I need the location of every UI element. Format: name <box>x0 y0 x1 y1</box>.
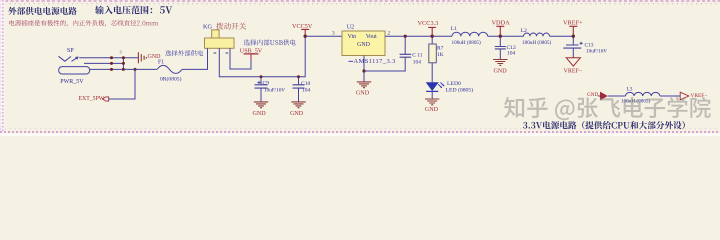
wire EXT_5PW to fuse rail <box>109 69 135 99</box>
capacitor C9 10uF/16V (polarized) <box>260 75 263 78</box>
svg-text:GND: GND <box>290 111 304 117</box>
capacitor C13 10uF/16V (polarized) <box>572 36 574 45</box>
wire L1 to VDDA junction <box>488 35 524 37</box>
wire GND port to L3 <box>608 95 626 97</box>
svg-text:GND: GND <box>356 91 370 97</box>
capacitor C12 104 <box>499 36 501 46</box>
svg-text:100uH (0805): 100uH (0805) <box>452 39 482 46</box>
svg-text:U2: U2 <box>347 24 354 30</box>
wire fuse to switch <box>182 48 208 69</box>
svg-text:LED (0805): LED (0805) <box>446 87 474 94</box>
sheet background <box>0 0 720 136</box>
svg-text:VDDA: VDDA <box>492 20 511 27</box>
wire C11 ground return <box>364 57 405 71</box>
ground (U2) <box>357 82 371 88</box>
svg-text:LED0: LED0 <box>447 81 461 87</box>
wire switch pin3 to USB_5V <box>230 52 251 69</box>
svg-text:GND: GND <box>587 92 598 98</box>
svg-text:10uF/16V: 10uF/16V <box>264 88 285 94</box>
ground (C9) <box>254 102 268 108</box>
capacitor C10 104 <box>297 75 300 78</box>
wire U2 GND pin down <box>363 56 365 82</box>
wire jack tip pin to ground <box>79 57 138 59</box>
svg-text:104: 104 <box>302 87 311 93</box>
title text 外部供电电源电路 <box>8 7 76 15</box>
svg-text:104: 104 <box>507 51 516 57</box>
wire U2 Vout along rail <box>385 35 452 37</box>
ground (C10) <box>291 102 305 108</box>
svg-text:1K: 1K <box>437 52 444 58</box>
port VREF- (right open arrow) <box>680 92 689 100</box>
title text 5V <box>160 6 172 13</box>
svg-text:C 11: C 11 <box>412 52 422 58</box>
wire VCC5V junction to U2 Vin <box>305 35 342 37</box>
LED LED0 <box>426 82 439 91</box>
sheet border top <box>0 0 720 2</box>
svg-text:104: 104 <box>413 60 421 66</box>
svg-text:10uF/16V: 10uF/16V <box>586 49 607 55</box>
svg-text:3: 3 <box>120 50 122 55</box>
svg-text:R7: R7 <box>437 45 444 51</box>
ground (LED0) <box>425 99 439 105</box>
svg-text:Vin: Vin <box>348 34 357 40</box>
resistor R7 1K <box>431 36 433 44</box>
svg-text:GND: GND <box>425 107 439 113</box>
svg-text:100uH (0805): 100uH (0805) <box>522 39 552 46</box>
wire L2 to VREF+ junction <box>550 35 574 37</box>
switch pin stubs <box>208 48 231 52</box>
power port VREF- (open arrow down) <box>566 58 580 66</box>
svg-text:0R(0805): 0R(0805) <box>160 76 182 83</box>
svg-text:2: 2 <box>388 31 391 37</box>
svg-text:L3: L3 <box>627 86 633 92</box>
pin number marks <box>214 52 229 54</box>
ground (jack, sideways bars) <box>138 52 146 63</box>
label 选择外部供电 <box>165 50 203 56</box>
junction dots at jack pins <box>122 56 125 59</box>
svg-text:AMS1117_3.3: AMS1117_3.3 <box>354 58 396 65</box>
svg-text:GND: GND <box>253 111 267 117</box>
wire R7 to LED0 <box>431 63 433 83</box>
wire jack to fuse <box>123 68 157 70</box>
svg-text:C10: C10 <box>301 81 311 87</box>
svg-text:PWR_5V: PWR_5V <box>60 79 84 85</box>
svg-text:GND: GND <box>357 42 371 48</box>
wire jack sleeve pin <box>90 58 124 70</box>
svg-text:KG: KG <box>203 23 212 30</box>
svg-text:GND: GND <box>494 69 508 75</box>
svg-text:C9: C9 <box>263 81 270 87</box>
title text 输入电压范围： <box>95 6 152 15</box>
svg-text:VREF−: VREF− <box>564 69 583 75</box>
caption 3.3V电源电路（提供给CPU和大部分外设） <box>523 121 685 129</box>
svg-text:VCC3.3: VCC3.3 <box>418 20 439 27</box>
watermark 知乎 @张飞电子学院 <box>504 97 711 120</box>
wire switch pin2 down and right to VCC5V junction <box>219 36 305 76</box>
svg-text:3: 3 <box>332 31 335 37</box>
sheet border left <box>0 0 6 133</box>
label 拨动开关 <box>216 23 246 30</box>
svg-text:F1: F1 <box>158 59 164 65</box>
sheet border bottom <box>0 131 720 133</box>
label 选择内部USB供电 <box>244 39 296 45</box>
ground (C12) <box>493 60 507 66</box>
wire LED0 to ground <box>431 91 433 99</box>
wire L3 to VREF- port <box>660 95 680 97</box>
svg-text:C13: C13 <box>585 42 594 48</box>
capacitor C11 104 <box>404 35 407 38</box>
note text 电源插座是有极性的 warning <box>9 20 158 27</box>
svg-text:Vout: Vout <box>366 34 377 40</box>
svg-text:EXT_5PW: EXT_5PW <box>79 96 105 102</box>
svg-text:SP: SP <box>67 48 74 54</box>
wire jack middle pin <box>84 62 123 64</box>
svg-text:L1: L1 <box>451 26 457 32</box>
svg-text:VREF+: VREF+ <box>563 19 583 26</box>
